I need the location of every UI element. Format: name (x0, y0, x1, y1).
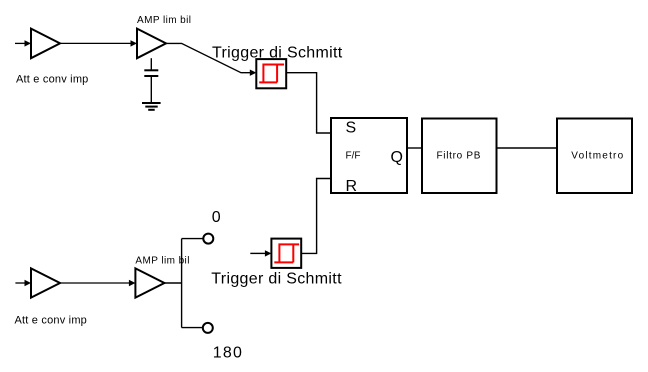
wire A2 to capacitor (150, 58, 152, 70)
label AMP lim bil (top) (137, 15, 191, 26)
ground (142, 103, 161, 110)
input arrow channel B (15, 280, 31, 286)
svg-text:0: 0 (212, 209, 221, 226)
svg-text:Voltmetro: Voltmetro (571, 150, 624, 161)
label Att e conv imp (top) (16, 74, 89, 86)
amplifier A1 Att e conv imp (31, 29, 60, 59)
label 180 (213, 344, 243, 361)
svg-text:Trigger di Schmitt: Trigger di Schmitt (211, 270, 342, 287)
switch pole wire vertical (181, 239, 183, 328)
input arrow channel A (15, 40, 31, 46)
block Filtro PB (422, 119, 497, 194)
wire U2 to R input (301, 179, 331, 254)
wire A1 to A2 with arrowhead (60, 40, 137, 46)
input arrow to Schmitt trigger U2 (250, 250, 271, 256)
label AMP lim bil (bottom) (135, 256, 189, 267)
block Voltmetro (557, 119, 632, 194)
Schmitt trigger U2 (271, 239, 301, 268)
svg-text:F/F: F/F (346, 151, 361, 162)
flip-flop U3 F/F (331, 118, 407, 193)
wire A3 to A4 with arrowhead (60, 280, 135, 286)
pin label Q (391, 149, 403, 166)
svg-text:180: 180 (213, 344, 243, 361)
switch contact 0 wire (182, 238, 203, 240)
wire Filtro PB to Voltmetro (497, 147, 558, 149)
svg-text:Att e conv imp: Att e conv imp (16, 74, 89, 86)
wire A2 to Schmitt trigger U1 (166, 43, 256, 76)
svg-text:Filtro PB: Filtro PB (437, 150, 482, 161)
label F/F (346, 151, 361, 162)
svg-text:Q: Q (391, 149, 403, 166)
svg-text:S: S (346, 120, 357, 137)
amplifier A2 AMP lim bil (137, 29, 166, 59)
svg-text:R: R (346, 178, 358, 195)
label Trigger di Schmitt (top) (212, 45, 343, 62)
amplifier A3 Att e conv imp (31, 268, 60, 297)
amplifier A4 AMP lim bil (135, 268, 164, 297)
pin label R (346, 178, 358, 195)
label 0 (212, 209, 221, 226)
switch contact 180 terminal (203, 323, 213, 333)
Schmitt trigger U1 (256, 59, 286, 88)
switch contact 180 wire (182, 327, 203, 329)
svg-text:AMP lim bil: AMP lim bil (137, 15, 191, 26)
wire A4 to switch pole (164, 282, 181, 284)
switch contact 0 terminal (203, 234, 213, 244)
label Att e conv imp (bottom) (15, 315, 88, 327)
label Trigger di Schmitt (bottom) (211, 270, 342, 287)
wire U1 to S input (286, 73, 331, 133)
wire Q to Filtro PB (407, 147, 422, 149)
svg-text:Att e conv imp: Att e conv imp (15, 315, 88, 327)
pin label S (346, 120, 357, 137)
capacitor C1 (144, 70, 158, 103)
